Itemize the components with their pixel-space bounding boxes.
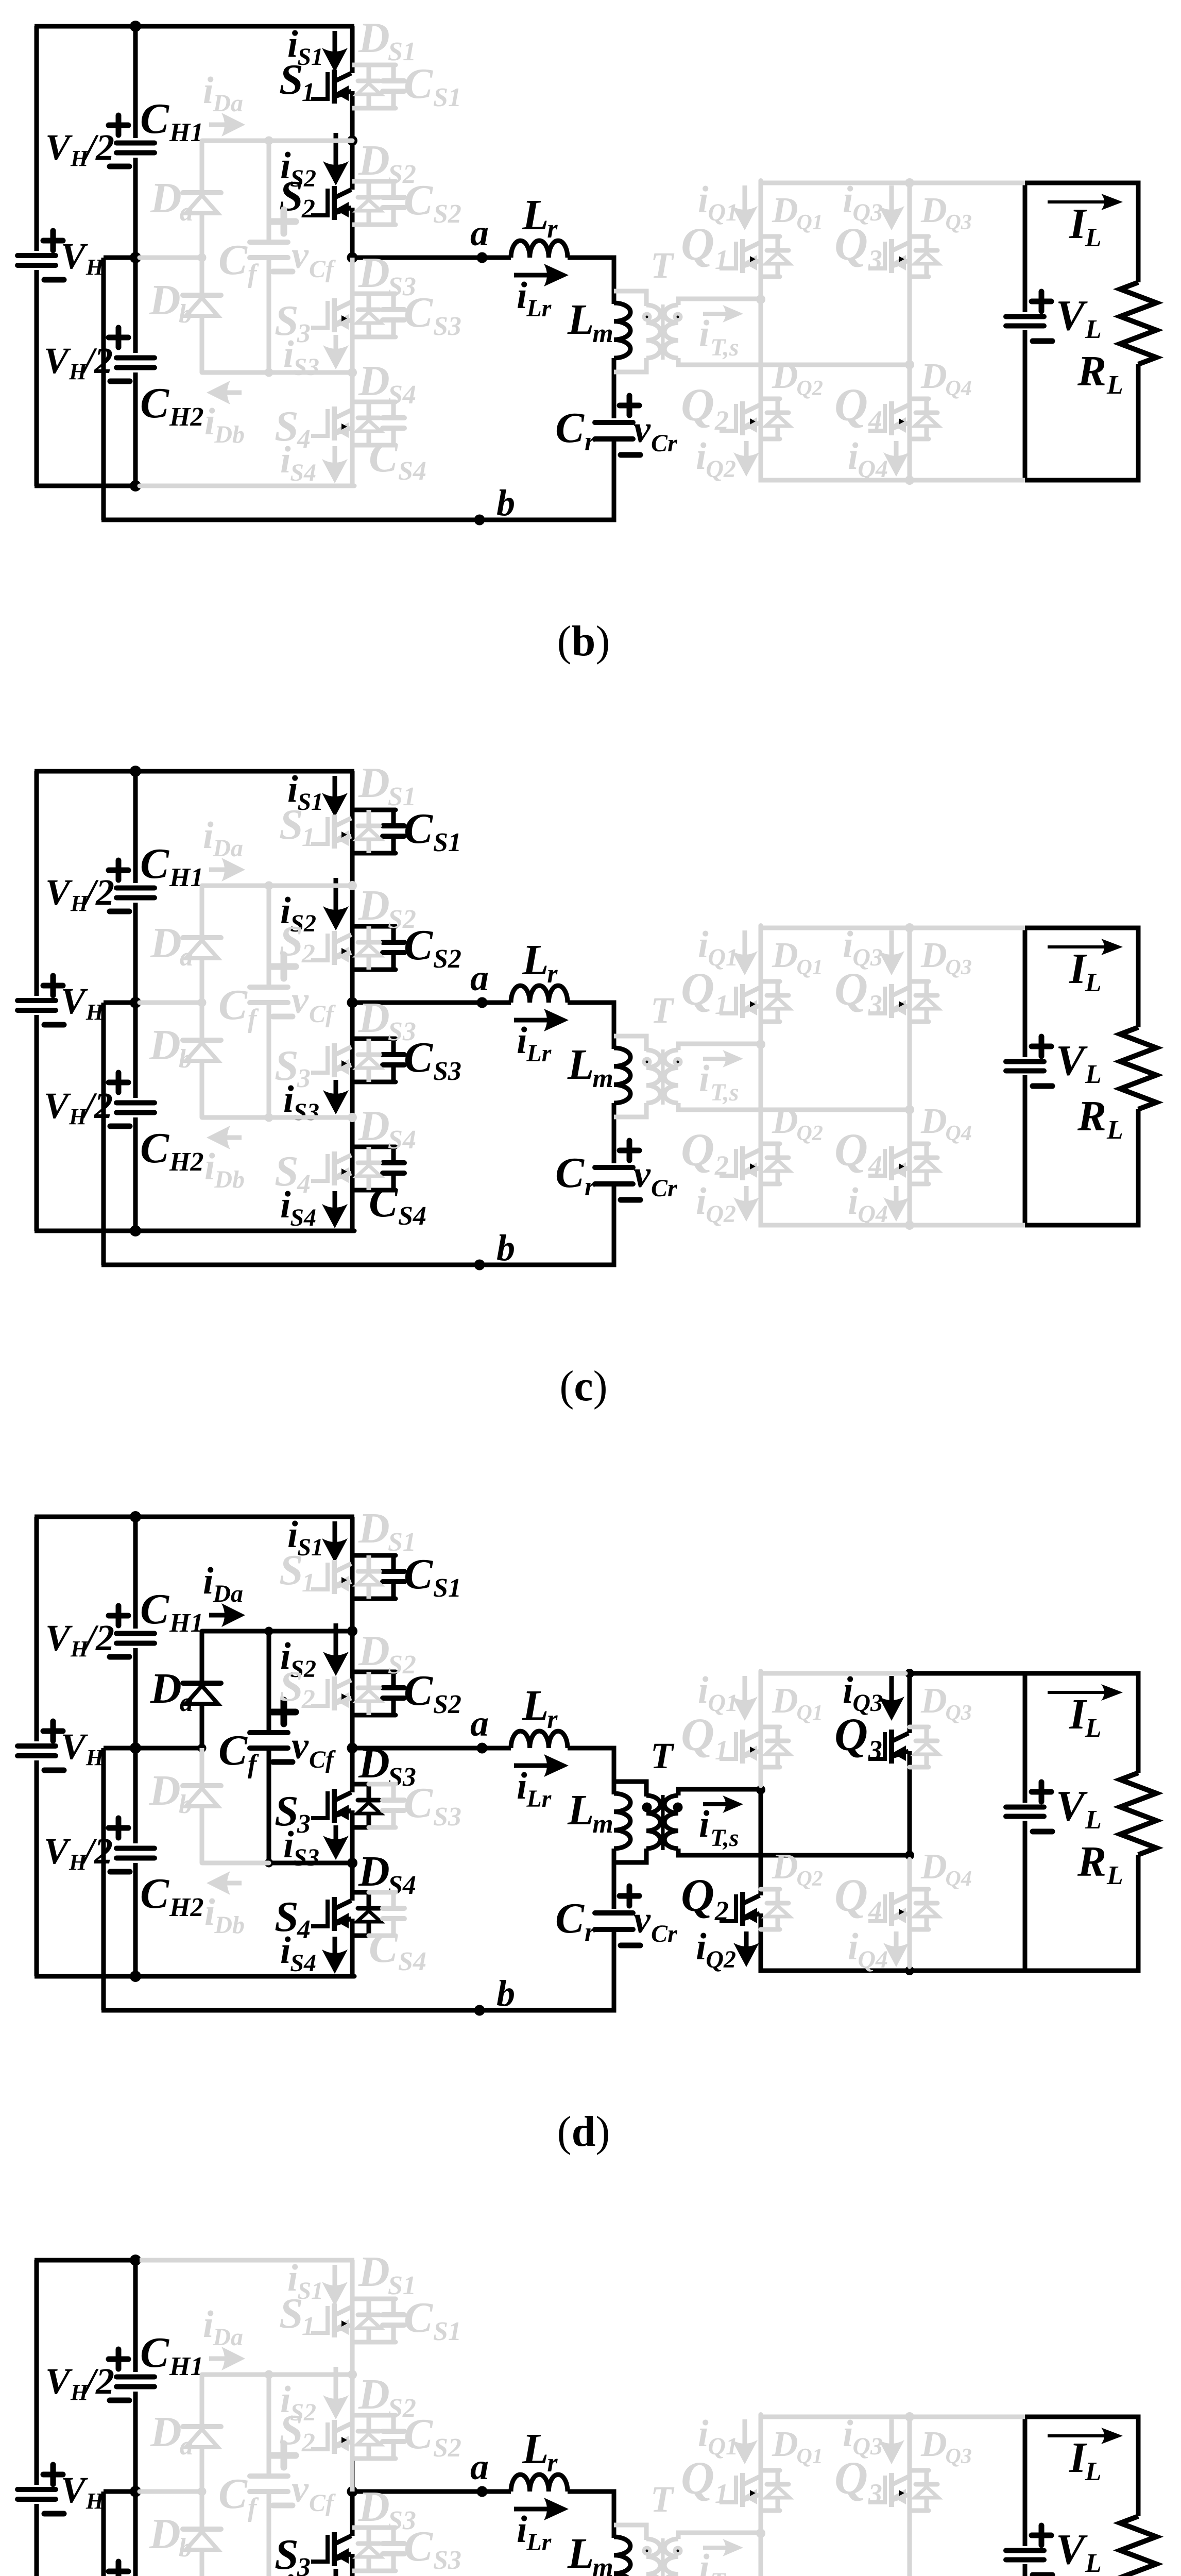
transformer secondary winding [e] <box>664 2539 678 2576</box>
inductor L_r [e] <box>511 2475 568 2492</box>
wire switch column segment 4b [d] <box>350 1919 355 1976</box>
svg-text:Q3: Q3 <box>946 211 972 234</box>
label R_L [d] <box>1077 1838 1123 1890</box>
diode D_Q2 [b] <box>761 399 790 439</box>
node a [d] <box>477 1743 488 1754</box>
label C_H1 [b] <box>140 95 203 147</box>
battery V_H plus sign [b] <box>43 231 63 250</box>
svg-text:S3: S3 <box>293 1844 319 1871</box>
transistor S2 [d] <box>311 1676 351 1710</box>
svg-text:V: V <box>1056 1037 1088 1084</box>
wire bridge top rail [c] <box>761 926 905 930</box>
svg-text:C: C <box>404 2294 433 2342</box>
label D_Q2 [b] <box>772 357 823 400</box>
wire snubber stub inner top S3 [d] <box>352 1782 371 1787</box>
label D_a [e] <box>150 2408 193 2461</box>
wire snubber stub inner bottom S4 [d] <box>352 1934 371 1938</box>
wire snubber stub outer bottom S3 [d] <box>369 1825 396 1830</box>
diode D_a [d] <box>183 1683 221 1748</box>
svg-text:L: L <box>1085 1805 1102 1835</box>
label S3 [c] <box>275 1042 311 1093</box>
wire C_H column middle [e] <box>133 2392 138 2576</box>
arrow i_Db [d] <box>207 1871 242 1895</box>
svg-text:T: T <box>651 245 675 286</box>
label R_L [b] <box>1077 347 1123 400</box>
arrow i_Q4 [d] <box>883 1931 909 1967</box>
battery V_H [e] <box>18 2489 56 2499</box>
wire battery branch [d] <box>35 1517 39 1976</box>
svg-text:i: i <box>280 1929 291 1972</box>
svg-text:/2: /2 <box>83 127 114 168</box>
svg-text:Q1: Q1 <box>708 944 738 971</box>
svg-text:D: D <box>150 919 182 967</box>
label C_f plus sign [e] <box>272 2444 296 2467</box>
arrow i_S4 [d] <box>322 1937 348 1974</box>
svg-text:T,s: T,s <box>710 2568 739 2576</box>
svg-text:Q3: Q3 <box>946 1701 972 1725</box>
label Q3 [d] <box>834 1709 882 1766</box>
wire switch column segment 2 [d] <box>350 1631 355 1748</box>
wire L_r to corner [c] <box>568 1001 617 1005</box>
wire snubber stub outer bottom S1 [e] <box>369 2340 396 2345</box>
capacitor C_S2 [c] <box>383 926 404 970</box>
transistor S1 arrow tip [c] <box>341 832 347 838</box>
diode D_Q4 [c] <box>910 1144 938 1184</box>
node bridge top Q3 [c] <box>905 923 914 933</box>
svg-text:v: v <box>292 979 309 1022</box>
arrow i_Q4 [c] <box>883 1186 909 1222</box>
node S2-source / a-wire corner [b] <box>347 252 358 263</box>
wire snubber stub outer bottom S1 [d] <box>369 1597 396 1601</box>
label C_H2 plus sign [b] <box>109 328 128 347</box>
label i_S2 [b] <box>280 145 316 192</box>
svg-text:S2: S2 <box>388 905 416 934</box>
svg-text:C: C <box>218 2470 248 2518</box>
wire snubber stub inner top S1 [e] <box>352 2297 371 2301</box>
wire snubber stub inner bottom S4 [b] <box>352 443 371 448</box>
transistor S1 [e] <box>311 2303 351 2337</box>
svg-text:4: 4 <box>868 1895 882 1926</box>
svg-text:S3: S3 <box>433 1802 461 1832</box>
diode D_Q1 [e] <box>761 2470 790 2511</box>
arrow i_Lr [c] <box>514 1009 569 1031</box>
transformer core [e] <box>661 2538 665 2576</box>
wire snubber stub outer bottom S1 [b] <box>369 106 396 111</box>
arrow i_S2 [c] <box>323 878 349 930</box>
svg-text:S4: S4 <box>398 456 426 486</box>
svg-text:C: C <box>555 1149 585 1197</box>
svg-text:T: T <box>651 990 675 1031</box>
svg-text:Lr: Lr <box>526 2529 552 2556</box>
arrow i_S1 [e] <box>322 2265 348 2306</box>
inductor L_m [b] <box>614 303 630 358</box>
label i_Lr [d] <box>517 1765 552 1812</box>
label C_f plus sign [b] <box>272 210 296 233</box>
label V_L minus sign [d] <box>1033 1829 1052 1835</box>
svg-text:D: D <box>358 994 390 1042</box>
capacitor C_S1 [e] <box>383 2299 404 2342</box>
wire Q1 leg [c] <box>759 926 763 1041</box>
wire C_H column upper [e] <box>133 2260 138 2372</box>
label V_H [d] <box>61 1726 105 1770</box>
wire transformer primary top stub [e] <box>614 2525 646 2540</box>
svg-text:S4: S4 <box>290 1950 316 1977</box>
transistor Q4 arrow tip [d] <box>899 1909 904 1915</box>
capacitor C_H1 [d] <box>116 1634 155 1643</box>
wire snubber stub outer bottom S2 [d] <box>369 1713 396 1718</box>
wire bottom b rail [d] <box>101 2008 614 2013</box>
label v_Cr [b] <box>634 409 678 457</box>
transistor Q4 [b] <box>868 401 909 435</box>
svg-text:C: C <box>369 433 398 481</box>
wire output box right upper [d] <box>1136 1671 1141 1773</box>
label S2 [c] <box>279 917 315 969</box>
capacitor V_L [e] <box>1006 2551 1044 2560</box>
transistor S1 [c] <box>311 815 351 849</box>
svg-text:1: 1 <box>715 2478 729 2509</box>
label C_H2 minus sign [d] <box>110 1869 130 1875</box>
wire b-rail riser [b] <box>101 258 106 520</box>
label C_r plus sign [b] <box>620 396 639 415</box>
wire output box left lower [d] <box>1023 1821 1028 1971</box>
svg-text:Q2: Q2 <box>706 1946 736 1973</box>
svg-text:i: i <box>843 179 853 221</box>
capacitor C_S3 [d] <box>383 1784 404 1827</box>
wire battery branch [c] <box>35 771 39 1231</box>
transistor Q3 [d] <box>868 1730 909 1764</box>
label D_Q1 [b] <box>772 191 823 234</box>
svg-text:V: V <box>61 1726 88 1767</box>
wire secondary bottom [d] <box>678 1849 910 1855</box>
battery V_H minus sign [e] <box>44 2511 64 2517</box>
label C_H1 [c] <box>140 840 203 892</box>
capacitor C_H1 [c] <box>116 888 155 898</box>
label v_Cr [d] <box>634 1899 678 1947</box>
arrow i_S4 [b] <box>322 446 348 483</box>
svg-text:i: i <box>848 1180 859 1223</box>
svg-text:Cr: Cr <box>651 430 678 457</box>
wire snubber stub inner bottom S1 [c] <box>352 851 371 856</box>
svg-text:D: D <box>149 2510 181 2558</box>
svg-text:C: C <box>218 236 248 284</box>
wire switch column segment 1b [b] <box>350 91 355 141</box>
wire C_f column lower [d] <box>267 1751 271 1863</box>
svg-text:S2: S2 <box>290 165 316 192</box>
wire top rail right [c] <box>140 769 354 774</box>
svg-text:Q2: Q2 <box>797 1867 823 1891</box>
wire C_H mid rail [b] <box>140 256 202 260</box>
wire switch column segment 1 [c] <box>350 771 355 886</box>
svg-text:S3: S3 <box>433 312 461 341</box>
svg-text:V: V <box>45 127 73 168</box>
svg-text:a: a <box>470 212 489 253</box>
wire transformer primary top stub [c] <box>614 1036 646 1051</box>
svg-text:H2: H2 <box>169 1147 203 1177</box>
wire C_H column lower [c] <box>133 1117 138 1231</box>
label D_Q2 [c] <box>772 1101 823 1145</box>
transformer primary winding [d] <box>646 1795 660 1849</box>
label C_S2 [d] <box>404 1667 461 1719</box>
battery V_H plus sign [d] <box>43 1721 63 1741</box>
svg-text:r: r <box>585 427 595 456</box>
svg-text:D: D <box>920 936 947 975</box>
node node2 on column [c] <box>348 1113 357 1122</box>
wire D_a upper [c] <box>200 886 204 938</box>
svg-text:/2: /2 <box>81 2574 113 2576</box>
label b [d] <box>497 1973 515 2014</box>
wire midpoint stub [c] <box>104 1001 135 1005</box>
diode D_S4 [b] <box>357 402 381 445</box>
label i_Da [c] <box>203 815 243 862</box>
label S3 [b] <box>275 297 311 348</box>
svg-text:Q4: Q4 <box>946 377 972 400</box>
label S4 [b] <box>275 402 311 454</box>
label L_r [d] <box>522 1682 558 1734</box>
wire output box right upper [e] <box>1136 2415 1141 2517</box>
svg-text:a: a <box>180 197 193 227</box>
svg-text:Q2: Q2 <box>797 1122 823 1145</box>
label T [d] <box>651 1735 675 1776</box>
label D_S2 [e] <box>358 2370 416 2423</box>
wire right column middle [c] <box>612 1103 617 1163</box>
label L_m [b] <box>567 296 613 348</box>
label v_Cf [c] <box>292 979 336 1028</box>
svg-text:S: S <box>279 1546 303 1594</box>
wire Q4 leg [b] <box>908 369 912 476</box>
wire transformer primary top stub [b] <box>614 291 646 306</box>
svg-text:a: a <box>470 2446 489 2487</box>
diode D_Q1 [b] <box>761 236 790 277</box>
wire node1 rail [d] <box>202 1629 352 1634</box>
wire snubber stub outer bottom S4 [d] <box>369 1934 396 1938</box>
label T [e] <box>651 2479 675 2520</box>
label D_Q1 [e] <box>772 2425 823 2468</box>
svg-text:Q1: Q1 <box>797 211 823 234</box>
wire C_f column upper [e] <box>267 2375 271 2473</box>
diode D_S3 [e] <box>357 2528 381 2571</box>
svg-text:i: i <box>848 435 859 478</box>
arrow i_Q1 [e] <box>732 2419 758 2464</box>
wire bridge bottom rail [d] <box>761 1969 1025 1973</box>
label i_Q3 [b] <box>843 179 883 226</box>
label C_S1 [b] <box>404 60 461 112</box>
diode D_S4 [d] <box>357 1892 381 1936</box>
arrow i_Q3 [e] <box>879 2419 904 2464</box>
svg-text:Db: Db <box>214 1166 245 1193</box>
battery V_H plus sign [c] <box>43 976 63 995</box>
svg-text:Da: Da <box>212 90 243 117</box>
label V_H/2 upper [c] <box>45 872 114 916</box>
label I_L [e] <box>1069 2434 1101 2486</box>
svg-text:i: i <box>517 1020 527 1062</box>
svg-text:4: 4 <box>297 425 311 454</box>
svg-text:D: D <box>772 1681 798 1721</box>
svg-text:Q4: Q4 <box>858 455 888 483</box>
transistor Q2 [b] <box>720 401 760 435</box>
svg-text:v: v <box>292 2468 309 2511</box>
wire output box right upper [c] <box>1136 926 1141 1028</box>
label V_L minus sign [c] <box>1033 1083 1052 1089</box>
label D_S1 [e] <box>358 2248 416 2300</box>
node top-rail/C_H1 junction [e] <box>130 2255 141 2266</box>
wire C_f column lower [b] <box>267 260 271 372</box>
svg-text:D: D <box>358 2483 390 2531</box>
label C_r minus sign [c] <box>621 1197 640 1203</box>
svg-text:3: 3 <box>297 1809 311 1839</box>
node node1 on column [e] <box>348 2370 357 2379</box>
wire switch column segment 2b [b] <box>350 208 355 258</box>
svg-text:Q: Q <box>834 2453 868 2504</box>
svg-text:Q4: Q4 <box>946 1867 972 1891</box>
svg-text:L: L <box>567 1786 594 1834</box>
wire transformer primary top stub [d] <box>614 1782 646 1797</box>
wire C_f column upper [b] <box>267 141 271 240</box>
wire switch column segment 1 [d] <box>350 1517 355 1631</box>
label V_H [e] <box>61 2469 105 2514</box>
wire snubber stub outer top S2 [c] <box>369 924 396 929</box>
svg-text:V: V <box>44 1831 71 1872</box>
capacitor C_r [d] <box>595 1913 633 1929</box>
svg-text:L: L <box>522 1682 549 1730</box>
svg-text:V: V <box>1056 292 1088 340</box>
node C_H2 bottom junction [b] <box>130 480 141 492</box>
label C_S4 [d] <box>369 1924 426 1976</box>
arrow i_Da [b] <box>209 113 245 137</box>
transformer secondary polarity dot center [c] <box>677 1061 679 1063</box>
wire snubber stub outer bottom S2 [e] <box>369 2456 396 2461</box>
svg-text:3: 3 <box>297 319 311 348</box>
label Q3 [e] <box>834 2453 882 2509</box>
node C_H2 bottom junction [d] <box>130 1971 141 1982</box>
wire output box left lower [b] <box>1023 330 1028 480</box>
label D_S1 [b] <box>358 14 416 66</box>
arrow i_S1 [c] <box>322 776 348 817</box>
label i_Q3 [e] <box>843 2413 883 2460</box>
label C_H2 plus sign [d] <box>109 1818 128 1838</box>
transformer primary polarity dot center [c] <box>646 1061 648 1063</box>
svg-text:a: a <box>470 1703 489 1744</box>
wire D_a upper [b] <box>200 141 204 193</box>
label C_r minus sign [b] <box>621 452 640 458</box>
wire output box left upper [b] <box>1023 181 1028 313</box>
transistor S3 arrow tip [c] <box>341 1060 347 1066</box>
label i_Da [b] <box>203 70 243 117</box>
label v_Cr [c] <box>634 1154 678 1202</box>
label C_H1 [e] <box>140 2329 203 2381</box>
wire C_H mid rail [c] <box>140 1001 202 1005</box>
transformer primary polarity dot [e] <box>642 2546 652 2556</box>
svg-text:i: i <box>698 179 709 221</box>
svg-text:i: i <box>699 313 710 355</box>
svg-text:C: C <box>404 1550 433 1598</box>
wire snubber stub outer top S2 [b] <box>369 179 396 184</box>
node node1 C_f junction [e] <box>265 2370 273 2379</box>
diode D_b [c] <box>183 1040 221 1117</box>
node secondary top / Q1 leg [b] <box>756 295 765 304</box>
wire output box right upper [b] <box>1136 181 1141 283</box>
wire snubber stub inner top S3 [b] <box>352 292 371 296</box>
wire L_r to corner [b] <box>568 256 617 260</box>
transistor Q4 [d] <box>868 1892 909 1926</box>
svg-text:i: i <box>204 401 215 443</box>
wire top rail left [c] <box>35 769 135 774</box>
wire snubber stub outer bottom S4 [b] <box>369 443 396 448</box>
wire midpoint stub [b] <box>104 256 135 260</box>
label i_T,s [c] <box>699 1058 739 1106</box>
transistor S3 arrow tip [b] <box>341 315 347 321</box>
svg-text:4: 4 <box>868 1150 882 1181</box>
wire secondary bottom [c] <box>678 1103 910 1110</box>
wire Q2 leg [b] <box>759 299 763 483</box>
node bridge bottom Q4 [d] <box>905 1966 914 1975</box>
wire D_b upper [d] <box>200 1748 204 1785</box>
capacitor C_H2 [c] <box>116 1103 155 1113</box>
label C_H1 minus sign [c] <box>110 909 129 914</box>
svg-text:Q: Q <box>681 1709 714 1760</box>
wire C_H column middle [d] <box>133 1648 138 1843</box>
wire Q3 leg b [d] <box>908 1751 912 1855</box>
inductor L_m [e] <box>614 2537 630 2576</box>
wire snubber stub outer bottom S1 [c] <box>369 851 396 856</box>
svg-text:S2: S2 <box>433 1690 461 1719</box>
wire output box bottom [c] <box>1025 1223 1138 1228</box>
svg-text:v: v <box>634 409 651 451</box>
transformer primary polarity dot center [b] <box>646 316 648 318</box>
svg-text:Cf: Cf <box>309 1746 336 1773</box>
label C_f minus sign [b] <box>273 269 293 275</box>
wire snubber stub outer top S1 [b] <box>369 63 396 67</box>
transistor S1 arrow tip [e] <box>341 2320 347 2327</box>
label Q2 [b] <box>681 380 729 436</box>
label R_L [c] <box>1077 1092 1123 1145</box>
svg-text:D: D <box>772 2425 798 2464</box>
label D_S3 [e] <box>358 2483 416 2535</box>
svg-text:H1: H1 <box>169 1608 203 1638</box>
label C_H2 [c] <box>140 1124 203 1177</box>
svg-text:Cf: Cf <box>309 1001 336 1028</box>
node top-rail/C_H1 junction [b] <box>130 21 141 32</box>
label V_H [b] <box>61 235 105 280</box>
svg-text:S4: S4 <box>388 1125 416 1155</box>
label i_Q1 [b] <box>698 179 738 226</box>
svg-text:Lr: Lr <box>526 1785 552 1812</box>
svg-text:S2: S2 <box>388 1650 416 1680</box>
svg-text:i: i <box>283 2567 294 2576</box>
transformer primary winding [c] <box>646 1050 660 1103</box>
diode D_S2 [b] <box>357 181 381 225</box>
label V_H/2 lower [d] <box>44 1831 113 1875</box>
wire snubber stub inner bottom S2 [b] <box>352 223 371 227</box>
svg-text:S1: S1 <box>388 782 416 811</box>
svg-text:Q: Q <box>834 1125 868 1176</box>
wire bottom b rail [b] <box>101 518 614 522</box>
svg-text:Q3: Q3 <box>946 956 972 979</box>
svg-text:m: m <box>592 319 613 348</box>
svg-text:D: D <box>358 1627 390 1675</box>
label S3 [e] <box>275 2531 311 2576</box>
svg-text:i: i <box>283 1824 294 1866</box>
battery V_H plus sign [e] <box>43 2465 63 2484</box>
diode D_Q3 [e] <box>910 2470 938 2511</box>
svg-text:i: i <box>517 1765 527 1807</box>
label C_f [b] <box>218 236 259 289</box>
svg-text:1: 1 <box>302 1568 315 1598</box>
wire node2 rail left [d] <box>202 1861 269 1866</box>
svg-text:i: i <box>843 924 853 966</box>
wire Q3 leg upper [b] <box>908 183 912 365</box>
svg-text:V: V <box>45 2361 73 2402</box>
wire secondary top [e] <box>678 2533 761 2539</box>
